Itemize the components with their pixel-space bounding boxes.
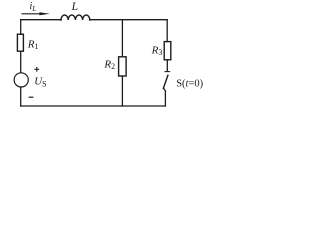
wire R3 branch upper: [166, 20, 168, 42]
wire R1 to source: [20, 51, 22, 73]
switch S blade: [163, 75, 168, 88]
svg-text:S(t=0): S(t=0): [176, 78, 203, 89]
wire left branch upper: [20, 20, 22, 35]
wire R3 to switch contact: [166, 60, 168, 72]
plus sign of source: [34, 67, 39, 72]
resistor R1: [17, 34, 23, 51]
resistor R3: [164, 42, 171, 60]
switch fixed contact tick: [165, 71, 170, 73]
wire top-right segment: [90, 19, 167, 21]
current arrow iL: [22, 12, 50, 15]
wire R2 branch upper: [121, 20, 123, 57]
wire source to bottom: [20, 87, 22, 106]
wire R2 branch lower: [121, 76, 123, 106]
wire bottom: [21, 105, 166, 107]
voltage source Us: [14, 73, 28, 87]
wire top-left segment: [21, 19, 61, 21]
minus sign of source: [29, 96, 34, 98]
resistor R2: [119, 57, 127, 76]
wire switch to bottom: [163, 88, 165, 106]
inductor L: [61, 15, 90, 20]
svg-text:L: L: [71, 1, 78, 13]
